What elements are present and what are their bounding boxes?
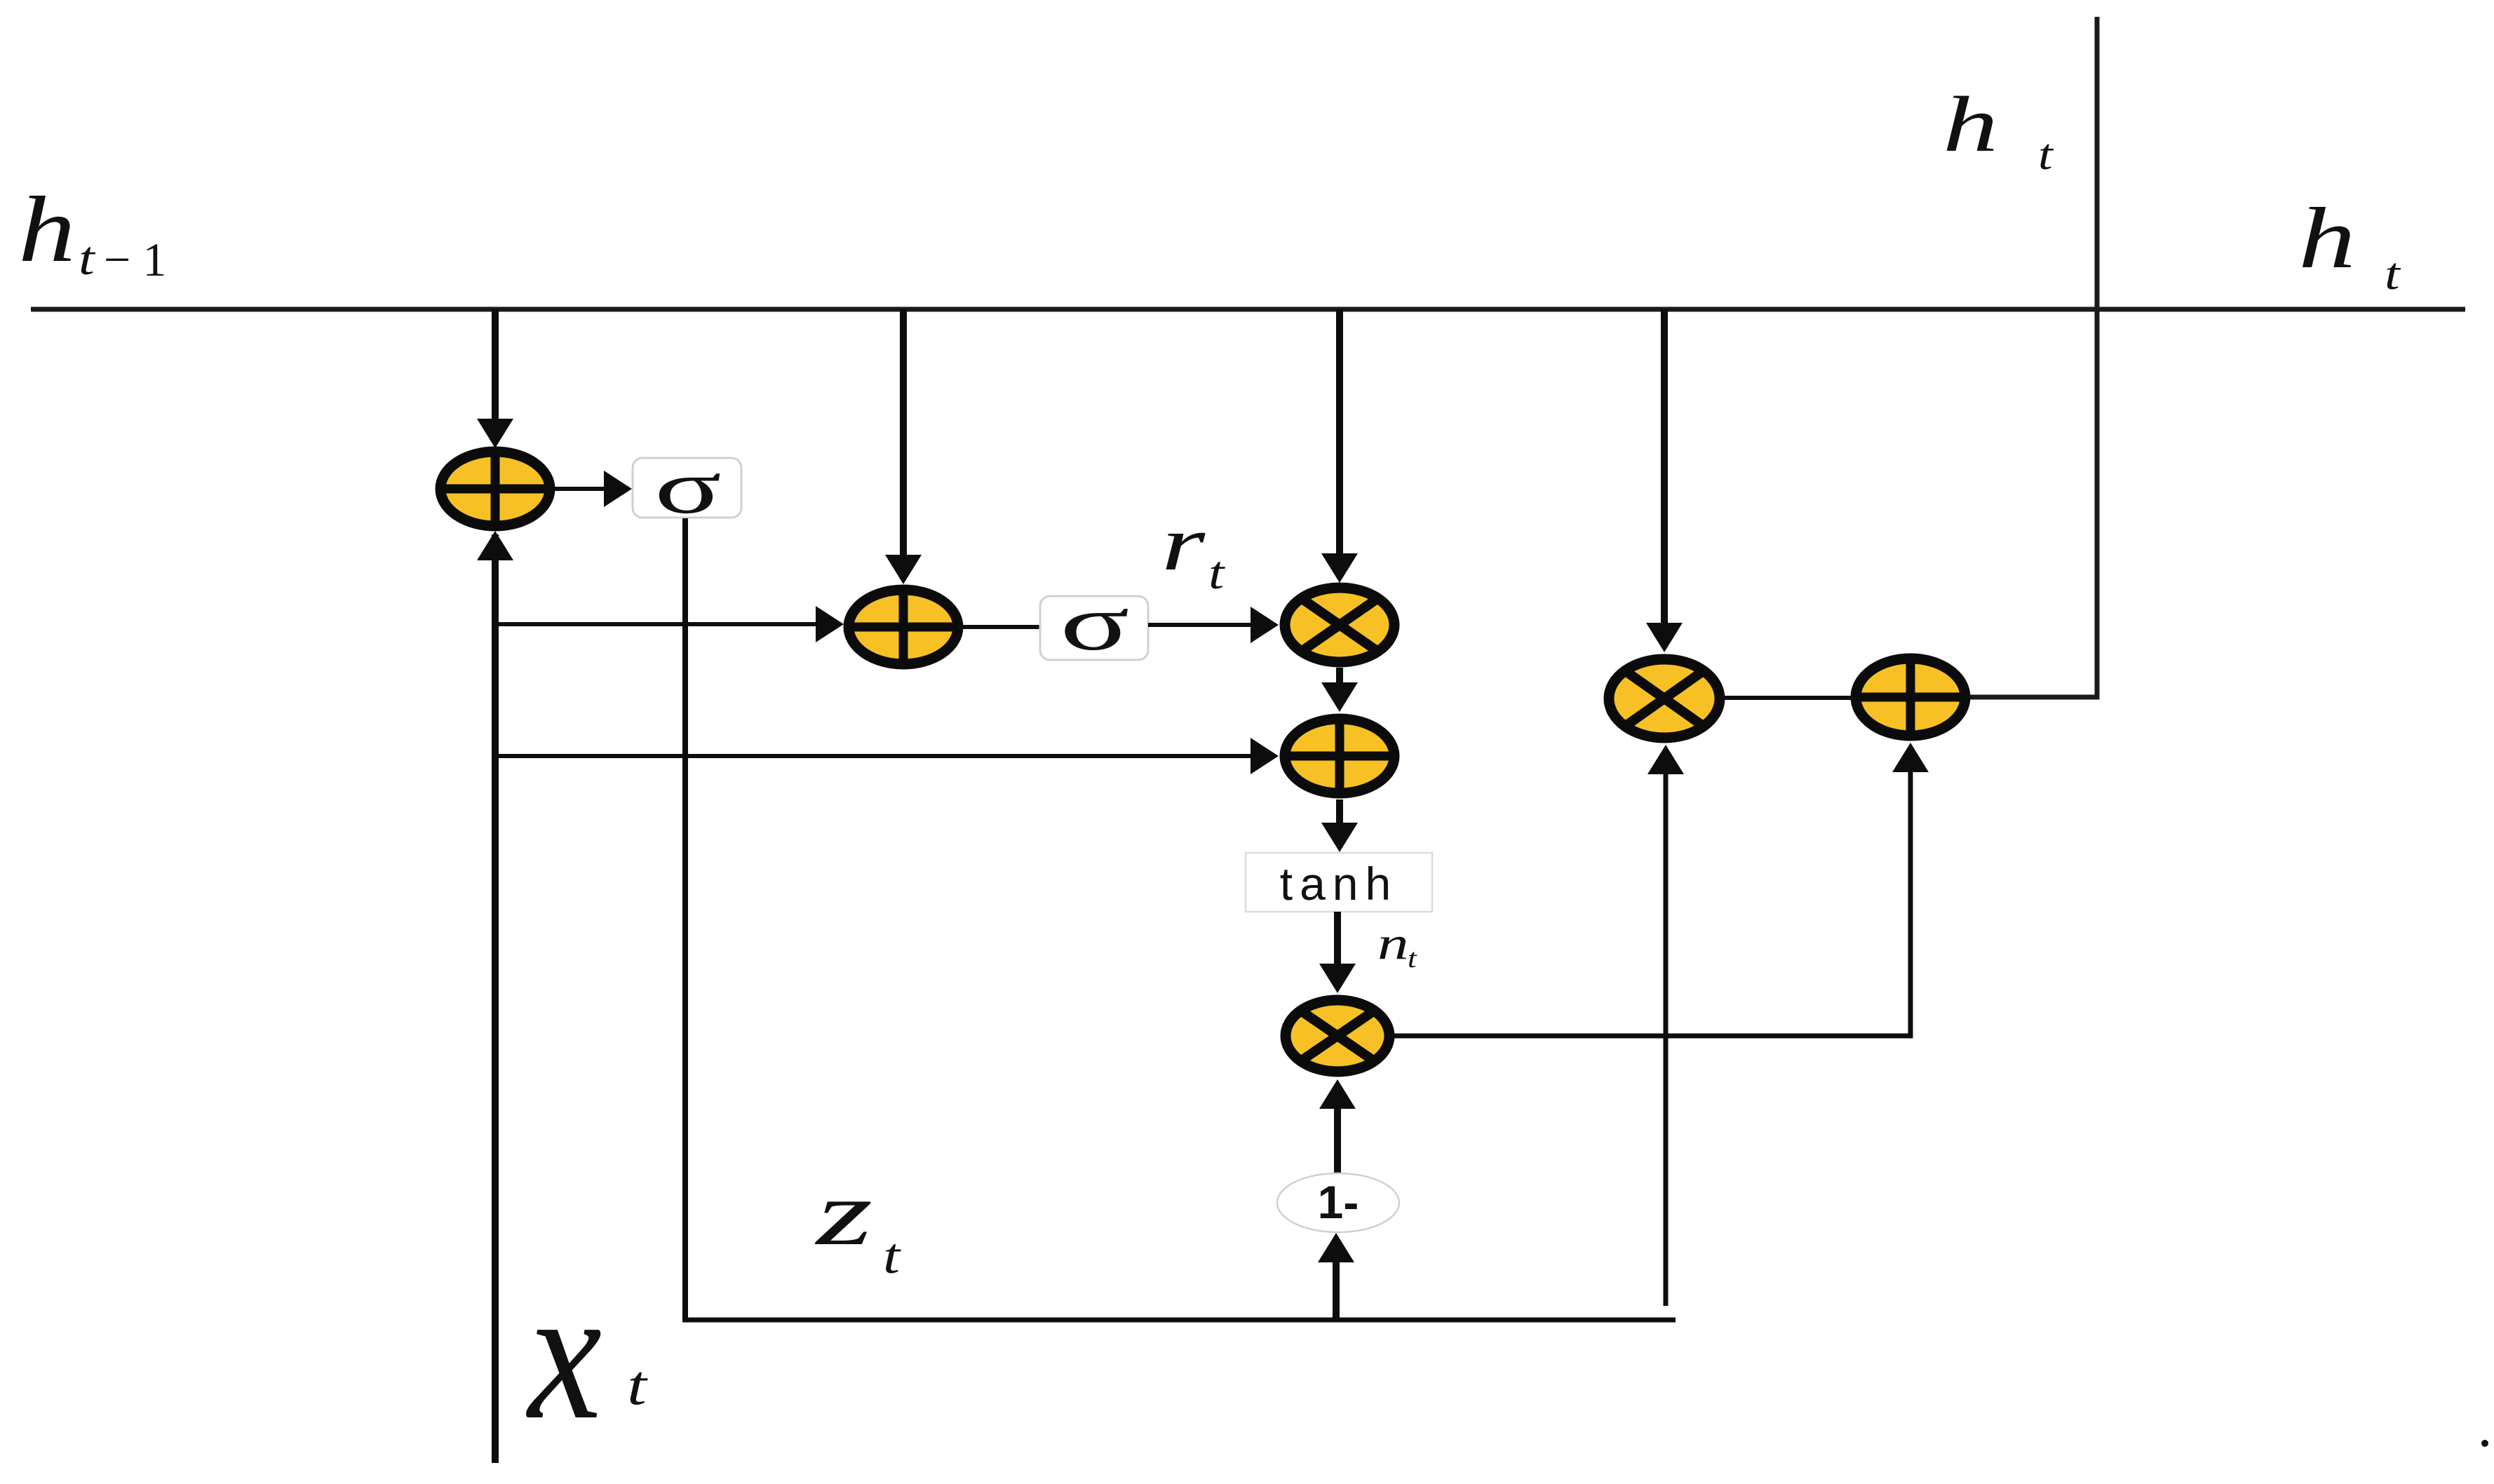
wire: bottom bus up into multiplier M2 with arrow [1647,745,1684,1306]
svg-text:h: h [2298,191,2356,287]
svg-text:t: t [2385,248,2401,299]
wire: from h line down into multiplier M1 with arrow [1321,309,1358,583]
svg-text:t: t [627,1354,648,1416]
svg-text:x: x [525,1248,602,1459]
svg-text:h: h [1943,80,1998,168]
one-minus ellipse (1-) [1277,1173,1399,1232]
label h_t right [2298,191,2401,299]
label z_t [815,1162,901,1284]
label h_t top [1943,80,2054,179]
wire: bottom horizontal bus z_t [682,1318,1676,1323]
adder A1 (circled plus, reset-gate sum) [436,449,555,529]
multiplier M1 (circled times, r_t gate) [1285,588,1394,662]
wire: x_t input vertical line with arrow up into adder A1 [477,531,513,1463]
svg-text:t: t [79,232,96,285]
wire: adder A1 to sigma box 1 with arrow [551,471,632,507]
label n_t [1377,917,1417,973]
wire: multiplier M3 output right then up into adder S3 with arrow [1388,743,1929,1036]
wire: multiplier M2 to adder S3 [1723,696,1853,700]
svg-text:t: t [883,1229,901,1285]
svg-text:t: t [1408,944,1417,973]
wire: one-minus ellipse up into multiplier M3 with arrow [1319,1079,1356,1173]
label h_t-1 [18,178,166,286]
wire: bottom bus up into one-minus with arrow [1318,1233,1354,1318]
svg-text:t: t [2038,130,2054,179]
svg-text:n: n [1377,917,1409,969]
wire: from h line down into adder A1 with arrow [477,309,513,448]
wire: from h line down into adder A2 with arrow [885,309,922,584]
wire: multiplier M1 down into adder A4 with arrow [1321,668,1358,712]
svg-text:tanh: tanh [1280,858,1398,910]
wire: tanh down into multiplier M3 with arrow [1319,912,1356,993]
wire: h_t output vertical line with corner from adder S3 output [1968,17,2097,697]
svg-text:− 1: − 1 [104,233,166,286]
period dot bottom right [2481,1440,2488,1447]
label x_t [525,1248,648,1459]
wire: from h line down into multiplier M2 with arrow [1646,309,1683,652]
svg-text:σ: σ [1060,579,1129,667]
adder A2 (circled plus before sigma 2) [844,587,963,667]
sigma box 2 (reset gate sigma) [1040,579,1148,667]
wire: adder A4 down into tanh box with arrow [1321,800,1358,852]
wire: top horizontal h line (h_t-1 to h_t) [31,307,2465,312]
multiplier M2 (circled times, z_t by h_t-1) [1609,659,1720,738]
svg-text:r: r [1161,500,1206,586]
wire: sigma box 1 output down to bottom bus (z_t) [682,518,688,1322]
multiplier M3 (circled times, candidate by 1-z) [1286,1000,1389,1072]
svg-text:σ: σ [654,445,722,529]
svg-text:z: z [815,1162,873,1264]
wire: sigma box 2 to multiplier M1 with arrow [1148,607,1279,643]
wire: branch from x_t line right into adder A2 with arrow [495,606,844,642]
label r_t [1161,500,1226,600]
adder A4 (circled plus, candidate sum) [1280,716,1399,796]
wire: adder A2 to sigma box 2 [958,625,1041,629]
svg-text:t: t [1208,547,1226,599]
adder S3 (circled plus, final sum h_t) [1851,656,1970,738]
svg-text:1-: 1- [1318,1176,1359,1228]
tanh box [1246,853,1432,912]
wire: branch from x_t line right into adder A4 with arrow [495,738,1279,774]
sigma box 1 (update gate sigma) [633,445,741,529]
svg-text:h: h [18,178,76,282]
